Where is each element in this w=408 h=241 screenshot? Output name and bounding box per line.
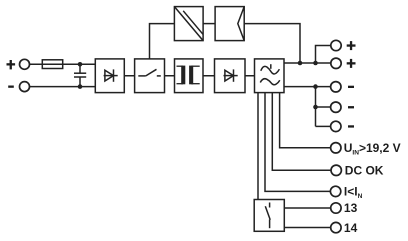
booster DC/DC box bbox=[174, 7, 203, 41]
fuse F1 bbox=[42, 60, 62, 69]
terminal 14 bbox=[331, 222, 341, 232]
signal terminal I limit bbox=[330, 186, 340, 196]
svg-text:13: 13 bbox=[344, 201, 358, 215]
input terminal + bbox=[20, 59, 30, 69]
label - (second) bbox=[348, 106, 354, 108]
SFB chevron symbol bbox=[238, 7, 244, 41]
signal terminal Uin bbox=[331, 143, 341, 153]
wire relay to 14 bbox=[284, 227, 330, 229]
signal terminal DC OK bbox=[331, 165, 341, 175]
wire diode to regulator bbox=[245, 75, 255, 77]
wire stub minus second bbox=[316, 106, 331, 108]
wire regulator to I limit terminal bbox=[265, 93, 330, 192]
label - (third) bbox=[348, 125, 354, 127]
switching stage box bbox=[135, 59, 165, 93]
input label + bbox=[7, 60, 16, 69]
wire booster to SFB box bbox=[203, 23, 215, 25]
wire regulator to DC OK terminal bbox=[272, 93, 331, 171]
label - (first) bbox=[348, 86, 354, 88]
wire branch to top plus terminal bbox=[316, 46, 331, 64]
output terminal + (second) bbox=[331, 58, 341, 68]
junction SFB drop on plus line bbox=[298, 61, 303, 66]
wire output minus bbox=[284, 86, 331, 88]
terminal 13 bbox=[331, 203, 341, 213]
junction top of C1 bbox=[78, 62, 83, 67]
wire regulator to relay bbox=[257, 93, 259, 200]
wire switch box to booster bbox=[150, 24, 175, 59]
wire bridge to switch bbox=[124, 75, 134, 77]
regulator sine symbols bbox=[260, 64, 280, 85]
svg-text:DC OK: DC OK bbox=[345, 164, 384, 178]
input label - bbox=[8, 86, 14, 88]
label + (second) bbox=[347, 59, 356, 68]
wire SFB to output plus line bbox=[244, 24, 300, 63]
wire relay to 13 bbox=[284, 207, 330, 209]
output terminal - (first) bbox=[331, 82, 341, 92]
wire regulator to Uin terminal bbox=[280, 93, 331, 148]
switch contact symbol bbox=[138, 69, 161, 76]
capacitor C1 bbox=[74, 64, 86, 86]
wire transformer to output diode bbox=[203, 75, 215, 77]
wire minus bus bbox=[315, 87, 317, 127]
relay box K1 bbox=[254, 200, 284, 232]
input terminal - bbox=[20, 82, 30, 92]
wire switch to transformer bbox=[165, 75, 175, 77]
junction bottom of C1 bbox=[78, 84, 83, 89]
booster diagonal symbol bbox=[174, 7, 203, 41]
output terminal - (third) bbox=[331, 121, 341, 131]
label + (top) bbox=[347, 41, 356, 50]
output diode symbol bbox=[224, 69, 238, 81]
transformer winding symbol bbox=[177, 66, 200, 85]
output terminal + (top) bbox=[331, 40, 341, 50]
junction minus bus middle bbox=[313, 105, 318, 110]
wire input - bbox=[30, 86, 96, 88]
SFB box bbox=[215, 7, 244, 41]
bridge rectifier diode symbol bbox=[104, 69, 118, 81]
regulator box U1 bbox=[255, 59, 285, 93]
junction minus branch bbox=[313, 84, 318, 89]
bridge rectifier box bbox=[95, 59, 124, 93]
transformer box bbox=[175, 59, 204, 93]
wire stub minus third bbox=[316, 125, 331, 127]
output diode box bbox=[215, 59, 246, 93]
wire input + bbox=[30, 63, 96, 65]
wire output plus bbox=[284, 62, 331, 64]
svg-text:UIN>19,2 V: UIN>19,2 V bbox=[344, 141, 401, 157]
relay contact symbol bbox=[265, 203, 270, 229]
junction plus branch bbox=[313, 61, 318, 66]
svg-text:14: 14 bbox=[344, 221, 358, 235]
output terminal - (second) bbox=[331, 102, 341, 112]
